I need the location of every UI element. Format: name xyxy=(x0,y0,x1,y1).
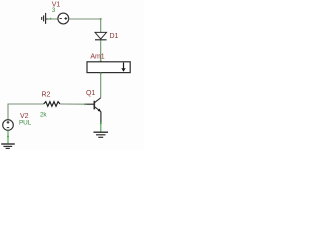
node dot at Q1 base lead xyxy=(84,103,86,105)
transistor Q1 (NPN) xyxy=(85,98,101,123)
node dot at ammeter top terminal xyxy=(100,60,102,62)
svg-text:D1: D1 xyxy=(110,33,119,40)
wire (ammeter bottom to Q1 collector) xyxy=(100,73,102,98)
wire (GND1 to V1 minus terminal) xyxy=(49,18,58,20)
svg-text:PUL: PUL xyxy=(19,119,32,126)
svg-text:R2: R2 xyxy=(42,92,51,99)
svg-text:3: 3 xyxy=(52,7,56,14)
wire (V1 plus terminal to top-right corner) xyxy=(69,18,101,20)
ground GND1 lead stub xyxy=(46,18,49,20)
wire (V2 top corner run to resistor R2) xyxy=(8,104,44,120)
node dot below V2 xyxy=(7,136,9,138)
voltage source V1 (circle with - and +) xyxy=(58,13,69,24)
ground GND1 (rotated, left of V1) xyxy=(42,13,46,24)
svg-text:Am1: Am1 xyxy=(90,53,104,60)
node dot at corner xyxy=(100,18,102,20)
svg-text:Q1: Q1 xyxy=(86,90,95,97)
node dot at V1 negative lead xyxy=(50,18,52,20)
wire (Q1 emitter to ground) xyxy=(100,123,102,132)
wire (R2 to Q1 base) xyxy=(60,103,87,105)
wire (corner down to diode anode) xyxy=(100,19,102,33)
node dot at Q1 emitter wire xyxy=(100,122,102,124)
ground GND2 (below Q1) xyxy=(94,132,109,137)
voltage source V2 (pulse source, circle with +) xyxy=(3,120,14,131)
diode D1 (anode top, cathode bottom) xyxy=(95,32,107,39)
ground GND3 (below V2) xyxy=(1,144,15,148)
svg-text:2k: 2k xyxy=(40,111,47,118)
wire (V2 bottom to ground) xyxy=(7,130,9,143)
wire (diode cathode to ammeter top) xyxy=(100,41,102,62)
ammeter Am1 (rectangle with current arrow) xyxy=(87,62,130,73)
resistor R2 (zigzag) xyxy=(44,102,60,107)
node dot at ammeter bottom terminal xyxy=(100,72,102,74)
